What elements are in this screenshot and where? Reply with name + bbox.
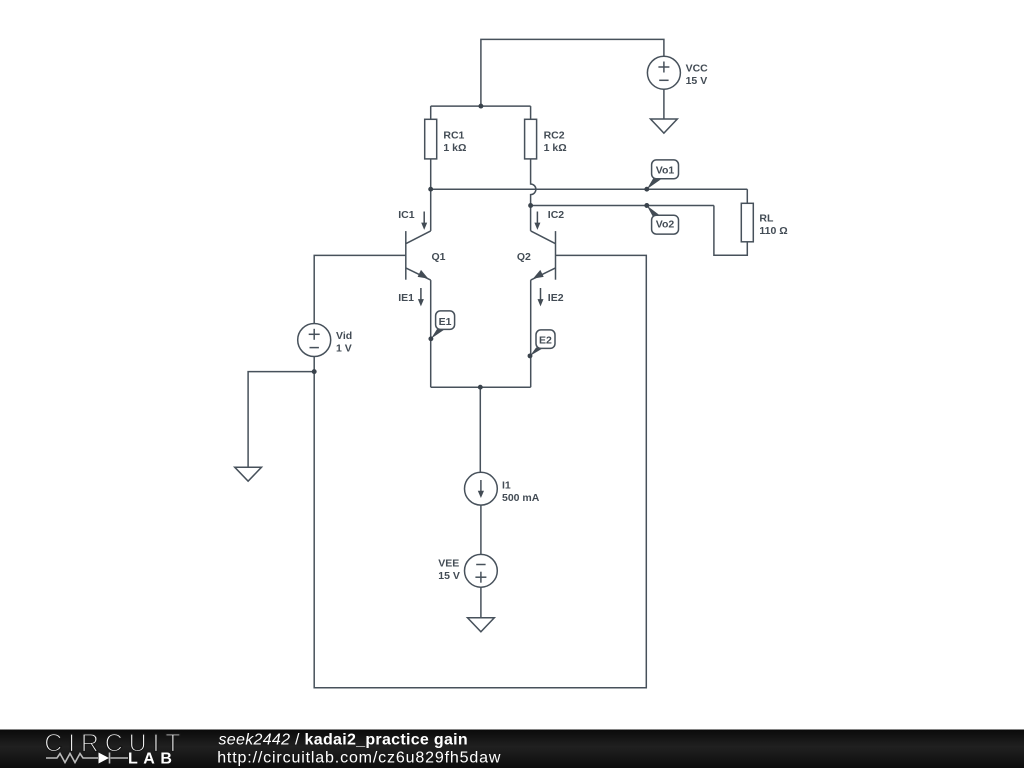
- current source I1: [465, 472, 498, 505]
- CircuitLab logo resistor-diode glyph: [46, 753, 128, 764]
- wire RL top lead: [746, 189, 748, 203]
- svg-text:E2: E2: [539, 335, 552, 347]
- junction dot Vo1 at RC1: [428, 187, 433, 192]
- svg-text:IC1: IC1: [398, 209, 415, 221]
- ground below Vid branch: [235, 467, 262, 481]
- footer bar: [0, 730, 1024, 768]
- current label IE1 with arrow: [398, 292, 414, 304]
- junction dot below Vid: [312, 369, 317, 374]
- svg-text:110 Ω: 110 Ω: [759, 225, 787, 237]
- junction dot Vo2 flag anchor: [644, 203, 649, 208]
- svg-text:IE2: IE2: [548, 292, 564, 304]
- svg-text:I1: I1: [502, 479, 511, 491]
- transistor Q2: [531, 231, 556, 280]
- wire node Vo2 horizontal: [531, 205, 714, 207]
- CircuitLab logo wordmark LAB: [128, 751, 177, 768]
- node flag Vo1: [647, 160, 679, 189]
- wire RL bottom lead: [714, 206, 747, 256]
- svg-text:1 kΩ: 1 kΩ: [544, 142, 567, 154]
- svg-text:Q1: Q1: [432, 251, 446, 263]
- voltage source Vid: [298, 324, 331, 357]
- resistor RC2: [525, 119, 537, 159]
- wire Q1 emitter vertical: [430, 280, 432, 387]
- transistor Q1 emitter arrow: [418, 270, 429, 279]
- wire VCC to ground: [663, 89, 665, 118]
- voltage source VCC: [647, 56, 680, 89]
- svg-text:RL: RL: [759, 212, 774, 224]
- svg-text:LAB: LAB: [128, 751, 177, 768]
- wire I1 to VEE: [480, 505, 482, 554]
- node flag Vo2: [647, 206, 679, 235]
- svg-text:1 kΩ: 1 kΩ: [443, 142, 466, 154]
- svg-text:1 V: 1 V: [336, 342, 352, 354]
- svg-text:RC2: RC2: [544, 130, 565, 142]
- junction dot top bus: [478, 104, 483, 109]
- wire RC1-RC2 top bus: [431, 105, 531, 107]
- ground below VEE: [468, 618, 495, 632]
- wire emitter rail: [431, 386, 531, 388]
- svg-text:E1: E1: [439, 316, 452, 328]
- svg-text:Q2: Q2: [517, 251, 531, 263]
- transistor Q1: [406, 231, 431, 280]
- node flag E2: [530, 330, 555, 356]
- wire VEE to ground: [480, 587, 482, 618]
- wire Vid top to Q1 base: [314, 255, 406, 323]
- svg-text:IE1: IE1: [398, 292, 414, 304]
- wire top rail VCC: [481, 39, 664, 106]
- wire Vid bottom: [313, 357, 315, 372]
- junction dot E2 anchor: [528, 353, 533, 358]
- svg-text:Vid: Vid: [336, 330, 352, 342]
- current label IC1 with arrow: [398, 209, 415, 221]
- svg-text:http://circuitlab.com/cz6u829f: http://circuitlab.com/cz6u829fh5daw: [217, 749, 501, 766]
- junction dot E1 anchor: [428, 336, 433, 341]
- svg-text:15 V: 15 V: [686, 75, 708, 87]
- current label IE2 with arrow: [548, 292, 564, 304]
- svg-text:RC1: RC1: [443, 130, 464, 142]
- wire RC1 top lead: [430, 106, 432, 119]
- svg-text:500 mA: 500 mA: [502, 492, 540, 504]
- resistor RC1: [425, 119, 437, 159]
- wire node Vo1 horizontal: [431, 188, 748, 190]
- wire Vid ground branch: [248, 372, 314, 468]
- footer title text: [217, 732, 501, 767]
- wire RC2 bottom lead with hop over Vo1: [531, 159, 536, 231]
- wire RC1 bottom lead to Q1 collector: [430, 159, 432, 231]
- svg-text:seek2442 / kadai2_practice gai: seek2442 / kadai2_practice gain: [219, 732, 468, 749]
- wire Q2 emitter vertical: [530, 280, 532, 387]
- svg-text:Vo1: Vo1: [656, 165, 675, 177]
- svg-text:15 V: 15 V: [438, 570, 460, 582]
- wire left side to bottom rail: [314, 255, 646, 687]
- wire RC2 top lead: [530, 106, 532, 119]
- transistor Q2 emitter arrow: [533, 270, 544, 279]
- junction dot emitter rail: [478, 385, 483, 390]
- node flag E1: [431, 311, 455, 339]
- junction dot Vo1 flag anchor: [644, 187, 649, 192]
- svg-text:Vo2: Vo2: [656, 218, 675, 230]
- svg-text:VEE: VEE: [438, 558, 459, 570]
- ground below VCC: [651, 119, 678, 133]
- svg-text:VCC: VCC: [686, 62, 709, 74]
- current label IC2 with arrow: [548, 209, 565, 221]
- junction dot Vo2 at Q2 collector: [528, 203, 533, 208]
- CircuitLab logo wordmark CIRCUIT: [44, 730, 186, 758]
- wire emitter rail to I1: [479, 387, 481, 472]
- resistor RL: [741, 203, 753, 242]
- voltage source VEE: [465, 554, 498, 587]
- svg-text:IC2: IC2: [548, 209, 565, 221]
